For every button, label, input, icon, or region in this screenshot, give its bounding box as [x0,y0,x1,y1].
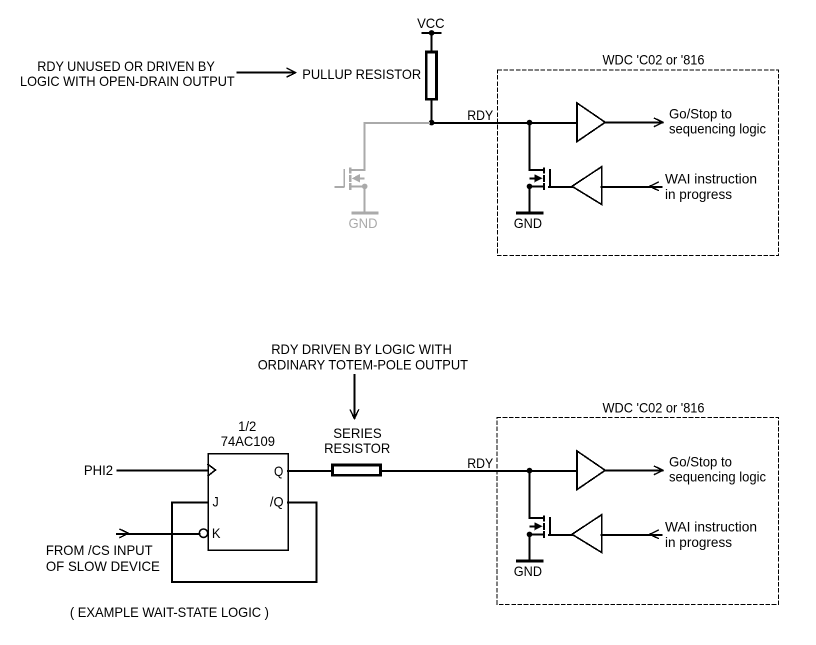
node VCC dot [429,30,435,36]
wire buffer U4 output arrow [605,469,662,471]
wire Q3 gate to inverter U5 output [549,534,572,536]
wire WAI input arrow (bottom) [602,534,662,536]
svg-text:( EXAMPLE WAIT-STATE LOGIC ): ( EXAMPLE WAIT-STATE LOGIC ) [70,604,269,620]
svg-text:WDC 'C02 or '816: WDC 'C02 or '816 [603,399,705,415]
svg-text:RDY: RDY [467,455,494,471]
node Q3 source dot [527,532,533,538]
wire /Q feedback to J [172,503,316,582]
svg-text:LOGIC WITH OPEN-DRAIN OUTPUT: LOGIC WITH OPEN-DRAIN OUTPUT [20,73,235,89]
transistor Q1 open-drain driver (gray) [334,168,364,212]
wire node down to Q2 drain [529,122,531,170]
inverter U2 WAI (top) [572,167,602,205]
svg-text:GND: GND [514,563,542,579]
pin K inversion bubble [199,529,207,537]
WDC box (bottom) [497,418,779,605]
svg-text:sequencing logic: sequencing logic [669,469,766,485]
svg-text:ORDINARY TOTEM-POLE OUTPUT: ORDINARY TOTEM-POLE OUTPUT [258,356,469,372]
wire node down to Q3 drain [529,470,531,518]
svg-text:Go/Stop to: Go/Stop to [669,453,732,469]
svg-text:WAI instruction: WAI instruction [665,171,757,187]
node Q2 source dot [527,184,533,190]
svg-text:PHI2: PHI2 [84,462,113,478]
node RDY junction inside box (top) [527,120,533,126]
pin CLK chevron [208,464,216,475]
svg-text:in progress: in progress [665,186,732,202]
node RDY junction inside box (bottom) [527,468,533,474]
ground GND (top box) [517,212,542,215]
wire Q2 gate to inverter U2 output [549,186,572,188]
svg-text:RDY: RDY [467,107,494,123]
svg-text:GND: GND [514,215,542,231]
svg-text:RESISTOR: RESISTOR [324,440,390,456]
transistor Q3 WAI pulldown (bottom) [530,516,550,560]
svg-text:SERIES: SERIES [333,425,382,441]
flip-flop U3 74AC109 body [208,454,288,550]
svg-text:Go/Stop to: Go/Stop to [669,105,732,121]
buffer U1 Go/Stop (top) [577,103,605,142]
svg-text:74AC109: 74AC109 [221,433,275,449]
wire VCC to resistor R1 [431,33,433,51]
wire /CS input arrow to K [117,533,199,535]
svg-text:/Q: /Q [270,493,284,509]
arrow down to series resistor [353,375,355,418]
arrow to pullup resistor [237,72,294,74]
svg-text:in progress: in progress [665,534,732,550]
svg-text:WDC 'C02 or '816: WDC 'C02 or '816 [603,51,705,67]
wire gray open-drain branch [365,123,429,170]
transistor Q2 WAI pulldown [530,168,550,212]
wire PHI2 to CLK [117,470,208,472]
ground GND (gray) [353,212,377,215]
svg-text:RDY DRIVEN BY LOGIC WITH: RDY DRIVEN BY LOGIC WITH [271,341,452,357]
wire buffer U1 output arrow [605,121,662,123]
svg-text:WAI instruction: WAI instruction [665,519,757,535]
wire WAI input arrow (top) [602,186,662,188]
wire resistor R1 to node RDY [431,101,433,123]
node Q1 source dot (gray) [362,184,368,190]
resistor R2 series [332,465,380,475]
svg-text:J: J [213,493,219,509]
ground GND (bottom box) [517,560,542,563]
svg-text:RDY UNUSED OR DRIVEN BY: RDY UNUSED OR DRIVEN BY [37,58,215,74]
wire node RDY to WDC box [432,122,577,124]
svg-text:OF SLOW DEVICE: OF SLOW DEVICE [46,558,160,574]
power VCC terminal bar [422,32,440,34]
svg-text:sequencing logic: sequencing logic [669,121,766,137]
svg-text:VCC: VCC [417,15,445,31]
svg-text:Q: Q [274,463,283,479]
resistor R1 pullup [426,52,436,99]
svg-text:FROM /CS INPUT: FROM /CS INPUT [46,542,153,558]
buffer U4 Go/Stop (bottom) [577,451,605,490]
svg-text:GND: GND [349,215,378,231]
WDC box (top) [498,70,779,256]
wire series resistor to WDC box (RDY) [382,470,578,472]
svg-text:PULLUP RESISTOR: PULLUP RESISTOR [302,66,421,82]
node RDY junction dot [429,120,435,126]
svg-text:K: K [212,525,221,541]
wire Q to series resistor [288,470,331,472]
svg-text:1/2: 1/2 [238,418,256,434]
inverter U5 WAI (bottom) [572,515,602,553]
